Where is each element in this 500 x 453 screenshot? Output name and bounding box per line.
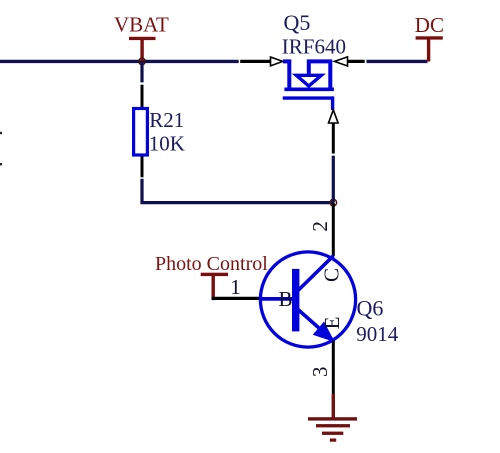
pin 1 of R21 (black)	[141, 85, 144, 108]
ground bar 4	[330, 439, 336, 442]
svg-text:DC: DC	[415, 13, 444, 37]
junction node VBAT/R21	[139, 58, 146, 65]
mosfet Q5 body-diode triangle	[296, 75, 321, 86]
wire: R21 to gate node (L-shape)	[142, 179, 334, 203]
ground bar 1	[308, 417, 357, 420]
junction node at gate wire	[330, 199, 337, 206]
pin arrow right of Q5	[335, 57, 348, 66]
mosfet Q5 gate lead	[331, 96, 334, 110]
mosfet Q5 left (drain) lead	[283, 61, 289, 88]
wire: VBAT junction down to R21 pin 1	[140, 61, 143, 82]
power port DC bar	[416, 36, 443, 39]
wire/pin: Q6 emitter down to ground (black)	[332, 341, 335, 395]
svg-text:3: 3	[308, 366, 332, 377]
power port VBAT stem	[140, 40, 143, 62]
svg-text:E: E	[320, 316, 344, 329]
svg-text:IRF640: IRF640	[282, 34, 346, 58]
wire/pin: Photo Control to Q6 base (black)	[212, 297, 262, 300]
power port VBAT bar	[129, 37, 156, 40]
transistor Q6 circle	[260, 252, 355, 347]
svg-text:9014: 9014	[356, 322, 399, 346]
transistor Q6 base bar	[292, 269, 299, 332]
svg-text:C: C	[320, 268, 344, 282]
mosfet Q5 channel bar	[284, 88, 334, 92]
pin (source side) of Q5, black segment	[348, 60, 365, 63]
pin 2 of R21 (black)	[141, 157, 144, 178]
transistor Q6 base lead	[261, 297, 293, 301]
svg-text:VBAT: VBAT	[114, 12, 169, 36]
power port Photo Control bar	[201, 273, 228, 276]
svg-text:Q5: Q5	[284, 10, 311, 35]
pin arrow left of Q5	[271, 57, 283, 66]
wire: gate pin down to junction	[332, 156, 335, 203]
mosfet Q5 body stub and right (source) lead	[309, 61, 331, 88]
ground bar 3	[322, 432, 343, 435]
wire: Q5 source to DC port	[367, 60, 428, 63]
svg-text:Photo Control: Photo Control	[155, 253, 268, 275]
ground bar 2	[316, 424, 350, 427]
resistor R21 body	[134, 109, 148, 156]
svg-text:1: 1	[230, 275, 241, 299]
mosfet Q5 gate bar	[283, 96, 333, 99]
wire: stub mark at left edge y=164	[0, 163, 2, 165]
svg-text:10K: 10K	[149, 132, 185, 156]
svg-text:B: B	[279, 287, 293, 311]
wire: stub mark at left edge y=133	[0, 132, 2, 134]
transistor Q6 emitter lead	[298, 310, 332, 340]
transistor Q6 emitter arrow	[314, 322, 334, 341]
svg-text:R21: R21	[149, 108, 184, 132]
power port Photo Control stem	[212, 276, 215, 300]
transistor Q6 collector lead	[298, 256, 334, 291]
wire: junction down to Q6 collector pin (black)	[332, 203, 335, 256]
power port DC stem	[427, 39, 430, 62]
svg-text:Q6: Q6	[357, 296, 384, 321]
ground stem	[332, 394, 335, 419]
pin arrow of Q5 gate (pointing up)	[329, 110, 339, 123]
svg-text:2: 2	[308, 221, 332, 232]
wire: top rail left segment (net to Q5 drain)	[0, 60, 239, 63]
pin (drain side) of Q5, black segment	[240, 60, 270, 63]
pin (gate) of Q5, black segment	[332, 123, 335, 154]
